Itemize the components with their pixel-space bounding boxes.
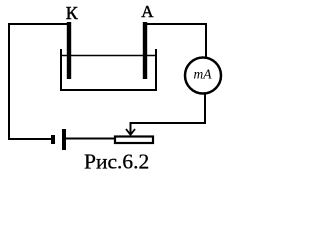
electrode K (cathode) — [67, 22, 71, 79]
wire milliammeter bottom to rheostat wiper — [131, 94, 206, 134]
rheostat wiper arrowhead — [126, 129, 135, 135]
rheostat R body — [115, 137, 153, 144]
electrode A (anode) — [143, 22, 147, 79]
wire battery plus to rheostat — [64, 138, 114, 140]
battery long plate (plus) — [62, 129, 66, 150]
svg-text:Рис.6.2: Рис.6.2 — [84, 150, 149, 174]
wire anode to milliammeter top — [145, 24, 206, 57]
electrolyte level line — [61, 55, 156, 57]
svg-text:mA: mA — [194, 66, 213, 81]
electrolytic vessel — [61, 49, 156, 90]
milliammeter mA — [185, 58, 221, 94]
svg-text:А: А — [141, 2, 154, 21]
wire left loop (top-left to battery minus) — [9, 24, 69, 139]
battery short plate (minus) — [51, 135, 55, 144]
svg-text:К: К — [66, 3, 79, 23]
